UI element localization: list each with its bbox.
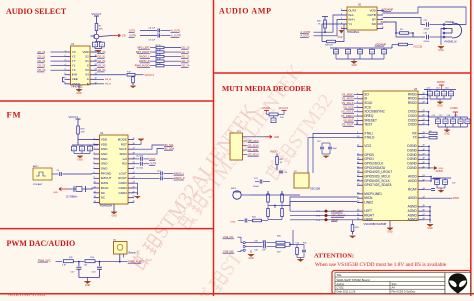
svg-text:C16: C16	[432, 115, 435, 117]
svg-text:R2 1K: R2 1K	[156, 49, 162, 51]
svg-text:Y?: Y?	[72, 59, 76, 63]
svg-text:C2: C2	[81, 148, 83, 150]
svg-text:104: 104	[443, 182, 446, 184]
svg-text:GND3: GND3	[118, 181, 127, 185]
svg-text:Y0: Y0	[72, 50, 76, 54]
svg-text:LINE2: LINE2	[364, 200, 373, 204]
svg-text:INA+: INA+	[348, 17, 355, 21]
svg-text:CVDD: CVDD	[408, 123, 418, 127]
svg-text:104: 104	[84, 264, 87, 266]
svg-text:WAR-SHIP STM32 Board: WAR-SHIP STM32 Board	[337, 278, 370, 282]
svg-text:104: 104	[370, 51, 373, 53]
svg-text:C10: C10	[317, 141, 320, 143]
svg-text:AVDD: AVDD	[453, 197, 460, 200]
svg-text:X2: X2	[85, 54, 89, 58]
svg-text:MUTI MEDIA DECODER: MUTI MEDIA DECODER	[222, 84, 312, 93]
svg-text:B: B	[87, 82, 89, 86]
svg-text:PCB ANT: PCB ANT	[33, 183, 43, 186]
svg-text:FM: FM	[7, 110, 22, 120]
svg-text:104: 104	[466, 121, 469, 123]
svg-text:74HC4052: 74HC4052	[71, 85, 83, 88]
svg-text:When use VS1053B CVDD must be: When use VS1053B CVDD must be 1.8V and I…	[315, 262, 447, 268]
svg-text:VS_SCLK: VS_SCLK	[342, 101, 354, 105]
svg-text:BCLK: BCLK	[101, 186, 109, 190]
svg-text:104: 104	[435, 93, 438, 95]
svg-text:104: 104	[442, 93, 445, 95]
svg-text:RVDD: RVDD	[437, 80, 445, 84]
svg-text:File ACD3.0-SchDoc: File ACD3.0-SchDoc	[392, 290, 416, 294]
svg-text:R2I: R2I	[122, 162, 127, 166]
svg-text:R3 1K: R3 1K	[156, 54, 162, 56]
svg-text:VS_TEST: VS_TEST	[342, 123, 354, 127]
svg-text:Amp1: Amp1	[381, 20, 387, 23]
svg-text:Y1: Y1	[72, 64, 76, 68]
svg-text:R28 47K: R28 47K	[325, 44, 333, 46]
svg-text:OSC/12M: OSC/12M	[310, 189, 320, 191]
svg-text:VSS: VSS	[72, 82, 78, 86]
svg-text:VDDAMP: VDDAMP	[382, 8, 393, 12]
svg-text:Date 2011.11.26: Date 2011.11.26	[337, 290, 356, 294]
svg-text:ROUT: ROUT	[118, 176, 127, 180]
svg-text:OUTB: OUTB	[367, 13, 375, 17]
svg-text:Y3: Y3	[72, 68, 76, 72]
svg-text:GND: GND	[338, 37, 343, 39]
svg-text:VDD: VDD	[101, 142, 108, 146]
svg-text:VDD: VDD	[101, 137, 108, 141]
svg-text:GND: GND	[427, 227, 433, 230]
svg-text:C18: C18	[447, 115, 450, 117]
svg-text:FMIN: FMIN	[101, 181, 108, 185]
svg-text:GND: GND	[111, 214, 117, 217]
svg-text:X: X	[87, 64, 89, 68]
svg-text:RFGND: RFGND	[101, 171, 112, 175]
svg-text:VCC3.3: VCC3.3	[279, 106, 289, 110]
svg-text:MIC1: MIC1	[231, 188, 237, 190]
svg-text:R30: R30	[303, 242, 306, 244]
svg-text:C22: C22	[452, 183, 455, 185]
svg-text:SDIO: SDIO	[119, 152, 127, 156]
svg-text:10K: 10K	[99, 28, 103, 30]
svg-text:GND: GND	[351, 64, 357, 67]
svg-text:RVDD: RVDD	[263, 106, 271, 110]
svg-text:B?: B?	[372, 17, 376, 21]
svg-text:LOUT: LOUT	[119, 171, 127, 175]
svg-text:VCO: VCO	[364, 144, 371, 148]
svg-text:GND: GND	[274, 137, 279, 139]
svg-text:GBUF: GBUF	[364, 218, 373, 222]
svg-text:GND: GND	[444, 132, 450, 135]
svg-text:Author: Author	[337, 282, 345, 286]
svg-text:104: 104	[382, 51, 385, 53]
svg-text:VS_MOSI: VS_MOSI	[342, 97, 354, 101]
svg-text:GND: GND	[101, 162, 109, 166]
svg-text:104: 104	[444, 121, 447, 123]
svg-text:220uF: 220uF	[333, 51, 339, 53]
svg-text:GND: GND	[438, 49, 444, 52]
svg-text:ATTENTION:: ATTENTION:	[314, 253, 354, 260]
svg-text:R5 1K: R5 1K	[156, 63, 162, 65]
svg-text:RVDD: RVDD	[408, 101, 418, 105]
svg-text:GD: GD	[122, 35, 126, 38]
svg-text:VDD: VDD	[82, 50, 89, 54]
svg-text:GND3: GND3	[118, 186, 127, 190]
svg-text:AVDD: AVDD	[408, 196, 417, 200]
svg-text:GND: GND	[101, 167, 109, 171]
svg-text:VS_RST: VS_RST	[343, 118, 354, 122]
svg-text:VCC3.3: VCC3.3	[92, 12, 102, 16]
svg-text:104: 104	[451, 121, 454, 123]
svg-text:220uF: 220uF	[424, 41, 431, 43]
svg-text:GND: GND	[231, 221, 236, 223]
svg-text:C19: C19	[454, 115, 457, 117]
svg-text:VS_MISO: VS_MISO	[342, 92, 354, 96]
svg-text:FM_B: FM_B	[105, 84, 111, 86]
svg-text:AUDIO AMP: AUDIO AMP	[219, 7, 272, 16]
svg-text:VS_DREQ: VS_DREQ	[341, 114, 354, 118]
svg-text:Y1: Y1	[348, 22, 352, 26]
svg-text:TEST: TEST	[364, 123, 372, 127]
svg-text:Size: Size	[392, 282, 398, 286]
svg-text:MODE: MODE	[118, 137, 127, 141]
svg-text:SCLK: SCLK	[119, 147, 127, 151]
svg-text:RDA5820N: RDA5820N	[100, 205, 112, 208]
svg-text:C13: C13	[436, 87, 439, 89]
svg-text:PWM DAC/AUDIO: PWM DAC/AUDIO	[7, 239, 76, 248]
svg-text:C6: C6	[94, 44, 96, 46]
svg-text:VCC3.3: VCC3.3	[69, 115, 79, 119]
svg-text:GND: GND	[101, 157, 109, 161]
svg-text:VDDAMP: VDDAMP	[375, 42, 386, 46]
svg-text:C4: C4	[57, 170, 59, 172]
svg-text:TPA6205A1: TPA6205A1	[347, 31, 360, 34]
svg-text:VCC3.3: VCC3.3	[145, 73, 155, 77]
svg-text:Y2: Y2	[72, 54, 76, 58]
svg-text:VEE: VEE	[72, 77, 78, 81]
svg-text:DGND: DGND	[407, 166, 417, 170]
svg-text:C14: C14	[157, 170, 160, 172]
svg-text:C8: C8	[272, 120, 274, 122]
svg-text:C12 104: C12 104	[136, 155, 143, 157]
svg-text:VS1003B/VS1053B: VS1003B/VS1053B	[364, 222, 387, 226]
svg-text:CVDD: CVDD	[450, 106, 458, 110]
svg-text:32.768KHz: 32.768KHz	[66, 197, 78, 199]
svg-text:C14: C14	[445, 87, 448, 89]
svg-text:PHONE: PHONE	[446, 21, 455, 24]
svg-text:C7: C7	[101, 44, 103, 46]
svg-text:R4 1K: R4 1K	[156, 59, 162, 61]
svg-text:Title: Title	[337, 273, 342, 277]
svg-text:ALIENTEK-STM32: ALIENTEK-STM32	[8, 292, 46, 296]
svg-text:GPIO7/I2S_SDATA: GPIO7/I2S_SDATA	[364, 183, 392, 187]
svg-text:VS_XCS: VS_XCS	[343, 105, 354, 109]
svg-text:GND: GND	[387, 231, 393, 234]
svg-text:FM_A: FM_A	[105, 78, 111, 81]
svg-text:104: 104	[436, 121, 439, 123]
svg-text:C3: C3	[89, 148, 91, 150]
svg-text:C9 1uF: C9 1uF	[149, 40, 156, 42]
svg-text:AVDD: AVDD	[270, 150, 277, 154]
svg-text:RST: RST	[121, 142, 127, 146]
svg-text:C12: C12	[427, 87, 430, 89]
svg-text:INA-: INA-	[348, 13, 354, 17]
svg-text:GND: GND	[77, 158, 83, 161]
svg-text:C31: C31	[296, 242, 299, 244]
svg-text:GND: GND	[101, 152, 109, 156]
svg-text:AGND: AGND	[408, 218, 418, 222]
svg-text:GND3: GND3	[118, 191, 127, 195]
svg-text:OUTA: OUTA	[348, 8, 356, 12]
svg-text:XTALO: XTALO	[364, 136, 375, 140]
svg-text:220uF: 220uF	[357, 51, 363, 53]
svg-text:GND: GND	[53, 192, 58, 194]
svg-text:X1: X1	[85, 59, 89, 63]
svg-text:PHONE_M: PHONE_M	[445, 41, 457, 44]
svg-text:R1 1K: R1 1K	[156, 45, 162, 47]
svg-text:22R: 22R	[81, 132, 85, 134]
svg-text:A: A	[87, 77, 89, 81]
svg-text:INH: INH	[72, 73, 77, 77]
svg-text:VS_XDCS: VS_XDCS	[341, 110, 354, 114]
svg-text:220uF: 220uF	[424, 28, 431, 30]
svg-text:A4: A4	[392, 286, 396, 290]
svg-text:GND: GND	[76, 92, 82, 95]
svg-text:104: 104	[346, 51, 349, 53]
svg-text:104: 104	[428, 93, 431, 95]
svg-text:RCAP: RCAP	[408, 187, 417, 191]
svg-text:(VCC5): (VCC5)	[414, 44, 423, 48]
svg-text:GND: GND	[248, 257, 254, 260]
svg-text:C17: C17	[439, 115, 442, 117]
svg-text:ANT1: ANT1	[33, 165, 39, 168]
svg-text:X3: X3	[85, 73, 89, 77]
svg-text:GND: GND	[85, 284, 91, 287]
svg-text:L2I: L2I	[123, 157, 127, 161]
svg-text:C8 1uF: C8 1uF	[149, 27, 156, 29]
svg-text:GND: GND	[101, 147, 109, 151]
svg-text:104: 104	[449, 93, 452, 95]
svg-text:Beeper 1: Beeper 1	[129, 251, 139, 254]
svg-text:GND: GND	[437, 104, 443, 107]
svg-text:AUDIO SELECT: AUDIO SELECT	[6, 7, 67, 16]
svg-text:VDD: VDD	[369, 8, 376, 12]
svg-text:104: 104	[459, 121, 462, 123]
svg-text:FMOUT: FMOUT	[101, 176, 112, 180]
svg-text:C13 104: C13 104	[136, 168, 143, 170]
svg-text:AVDD: AVDD	[408, 179, 417, 183]
svg-text:104: 104	[435, 182, 438, 184]
svg-text:AVDD: AVDD	[436, 169, 443, 173]
svg-text:100nF: 100nF	[253, 186, 259, 188]
svg-text:CYDZ: CYDZ	[337, 286, 344, 290]
svg-text:C1: C1	[73, 148, 75, 150]
svg-text:X0: X0	[85, 68, 89, 72]
